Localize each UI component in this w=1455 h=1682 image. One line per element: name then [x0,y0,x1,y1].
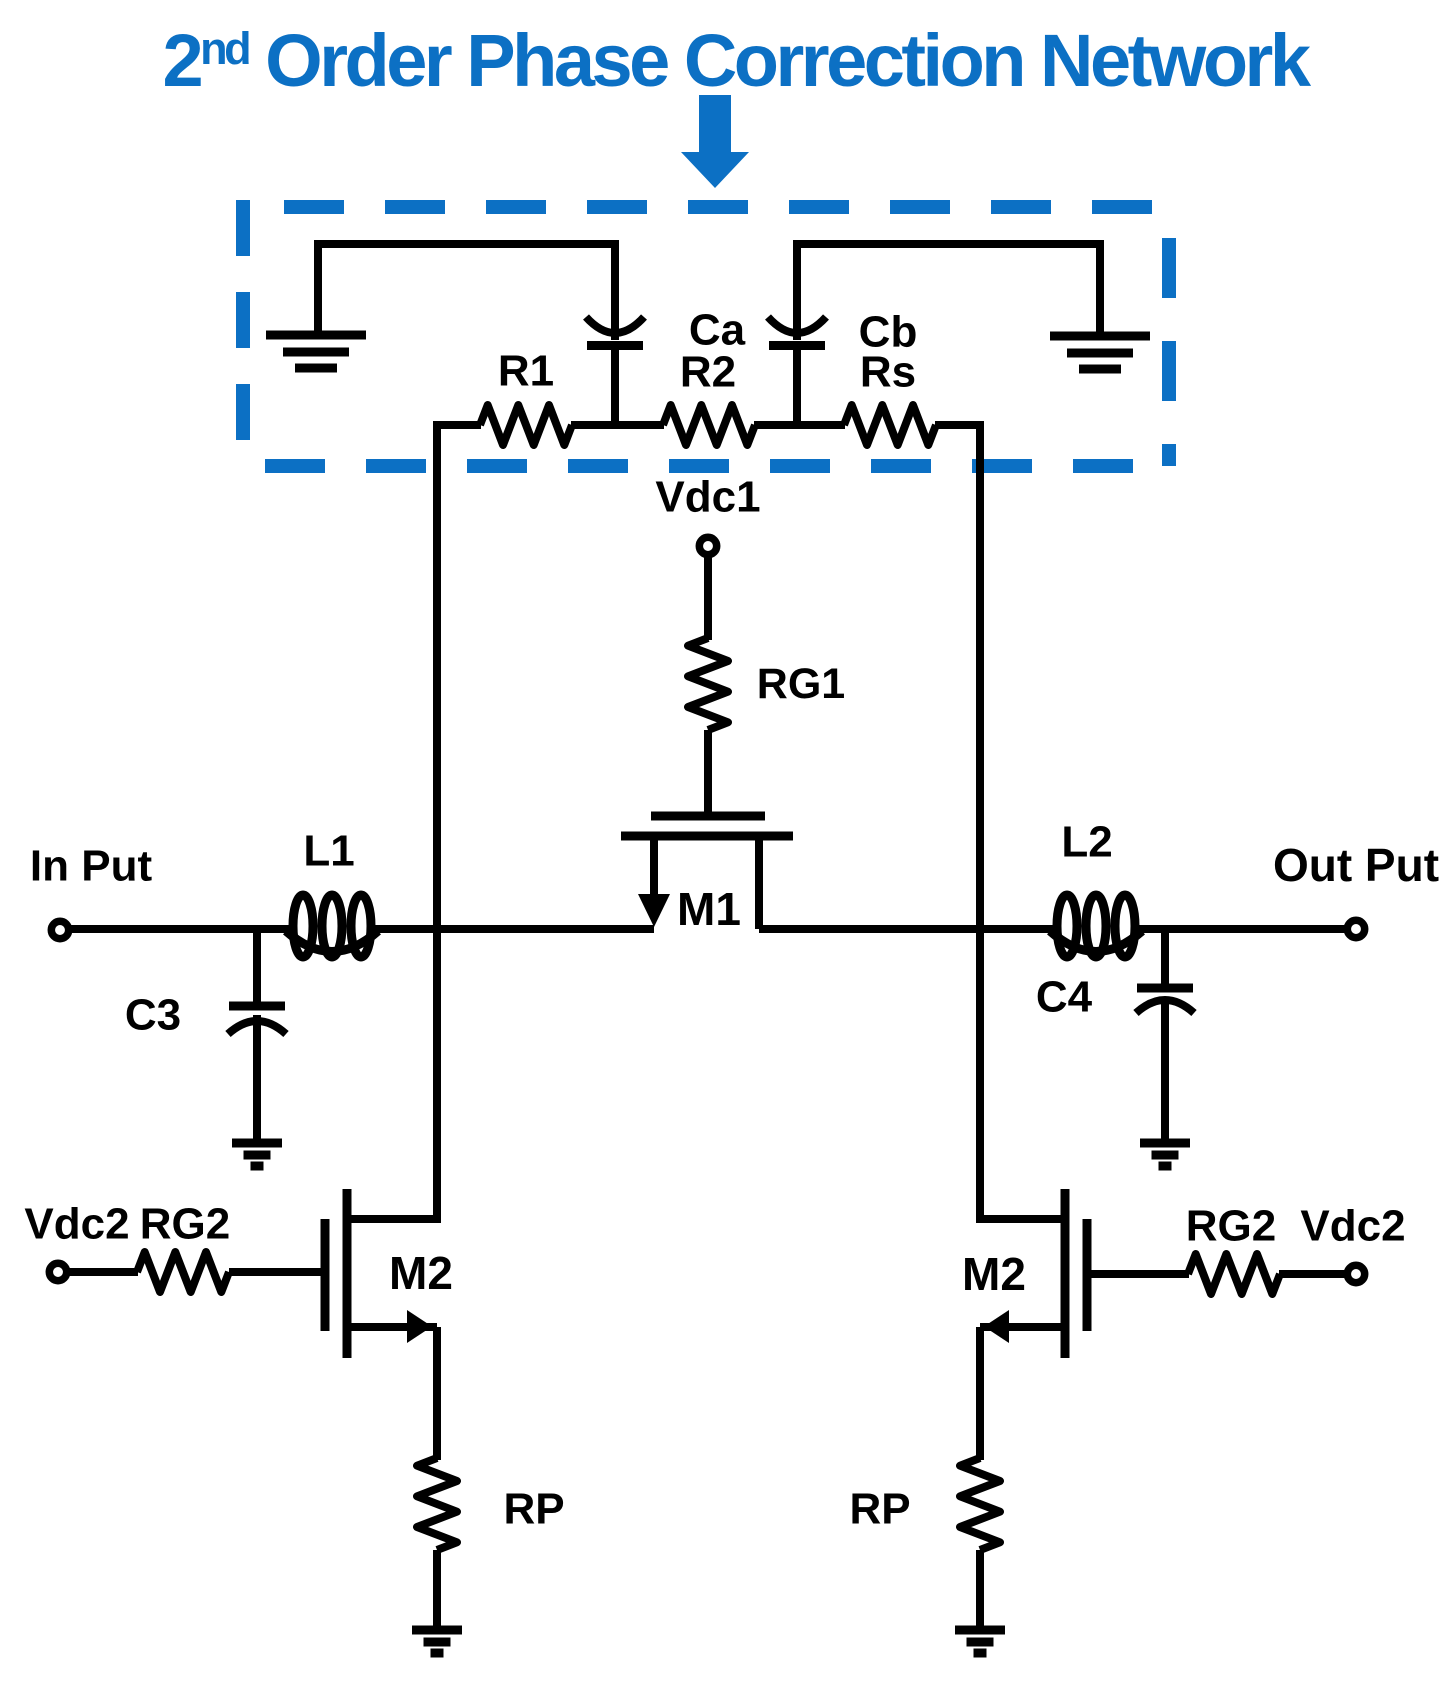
M1 source arrow [638,894,670,927]
svg-text:M2: M2 [962,1248,1026,1300]
resistor RG2 right [1188,1254,1280,1294]
wire: RP left to ground [433,1550,441,1630]
svg-text:RP: RP [849,1485,910,1534]
svg-text:2nd Order Phase Correction Net: 2nd Order Phase Correction Network [162,19,1311,102]
terminal node Out Put [1347,920,1364,937]
resistor R1 [480,405,572,445]
ground (right in box) [1050,336,1150,369]
ground (C4) [1140,1143,1190,1166]
wire: L1 to M1 left leg [375,925,654,933]
transistor M2 right [976,1189,1087,1358]
svg-text:RG2: RG2 [1186,1202,1276,1251]
capacitor C3 [228,929,286,1140]
ground (left in box) [266,335,366,368]
wire: top-left (ground to Ca) [314,240,615,248]
wire: RP right to ground [976,1550,984,1630]
wire: input to L1 [69,925,290,933]
svg-text:R1: R1 [498,347,554,396]
terminal node Vdc1 [699,537,716,554]
svg-text:RG2: RG2 [140,1200,230,1249]
dashed box: phase correction network (top edge) [243,200,1169,214]
svg-text:Vdc2: Vdc2 [24,1200,129,1249]
resistor RG2 left [137,1252,229,1292]
wire: left vertical (R1 node down to M2 drain) [433,421,441,1223]
wire: Vdc2 to RG2 left [67,1268,138,1276]
svg-text:M2: M2 [389,1247,453,1299]
svg-text:C4: C4 [1036,973,1093,1022]
ground (RP left) [412,1630,462,1653]
blue down arrow [681,95,749,188]
inductor L2 [1050,895,1142,957]
terminal node In Put [51,921,68,938]
resistor Rs [844,405,936,445]
terminal node Vdc2 right [1347,1265,1364,1282]
resistor RP right [960,1458,1000,1550]
dashed box (right edge) [1162,207,1176,466]
wire: resistor row baseline [433,421,984,429]
transistor M2 left [325,1189,441,1358]
capacitor C4 [1136,929,1194,1140]
capacitor Cb [768,240,826,429]
wire: M2 left source down to RP [433,1327,441,1460]
wire: M1 right leg to L2 [759,925,1055,933]
M2 left source arrow [407,1310,432,1343]
M2 right source arrow [984,1310,1009,1343]
dashed box (bottom edge) [243,459,1169,473]
svg-text:R2: R2 [680,348,736,397]
wire: top-right (Cb to ground) [797,240,1104,248]
resistor RP left [417,1458,457,1550]
svg-text:L1: L1 [303,827,354,876]
svg-text:In Put: In Put [30,842,153,891]
ground (C3) [232,1143,282,1166]
svg-text:L2: L2 [1061,818,1112,867]
dashed box (left edge) [236,200,250,466]
wire: Vdc1 to RG1 [704,555,712,640]
wire: L2 to output [1139,925,1347,933]
wire: RG2 to Vdc2 right [1279,1270,1348,1278]
ground (RP right) [955,1630,1005,1653]
svg-text:RG1: RG1 [757,660,845,708]
svg-text:Vdc2: Vdc2 [1300,1202,1405,1251]
svg-text:Vdc1: Vdc1 [655,473,760,522]
svg-text:Rs: Rs [860,348,916,397]
wire: left ground drop [314,240,322,332]
resistor RG1 [688,638,728,730]
wire: right vertical (Rs node down to M2 drain) [976,421,984,1223]
wire: M2 right source down to RP [976,1327,984,1460]
svg-text:RP: RP [503,1485,564,1534]
capacitor Ca [586,240,644,429]
wire: RG1 to M1 gate [704,730,712,816]
wire: M2 gate to RG2 right [1090,1270,1189,1278]
svg-text:M1: M1 [677,883,741,935]
transistor M1 [621,816,793,929]
svg-text:C3: C3 [125,991,181,1040]
svg-text:Out Put: Out Put [1273,839,1439,891]
inductor L1 [286,895,378,957]
wire: right ground drop [1096,240,1104,333]
terminal node Vdc2 left [49,1263,66,1280]
resistor R2 [663,405,755,445]
wire: RG2 to M2 gate left [229,1268,322,1276]
